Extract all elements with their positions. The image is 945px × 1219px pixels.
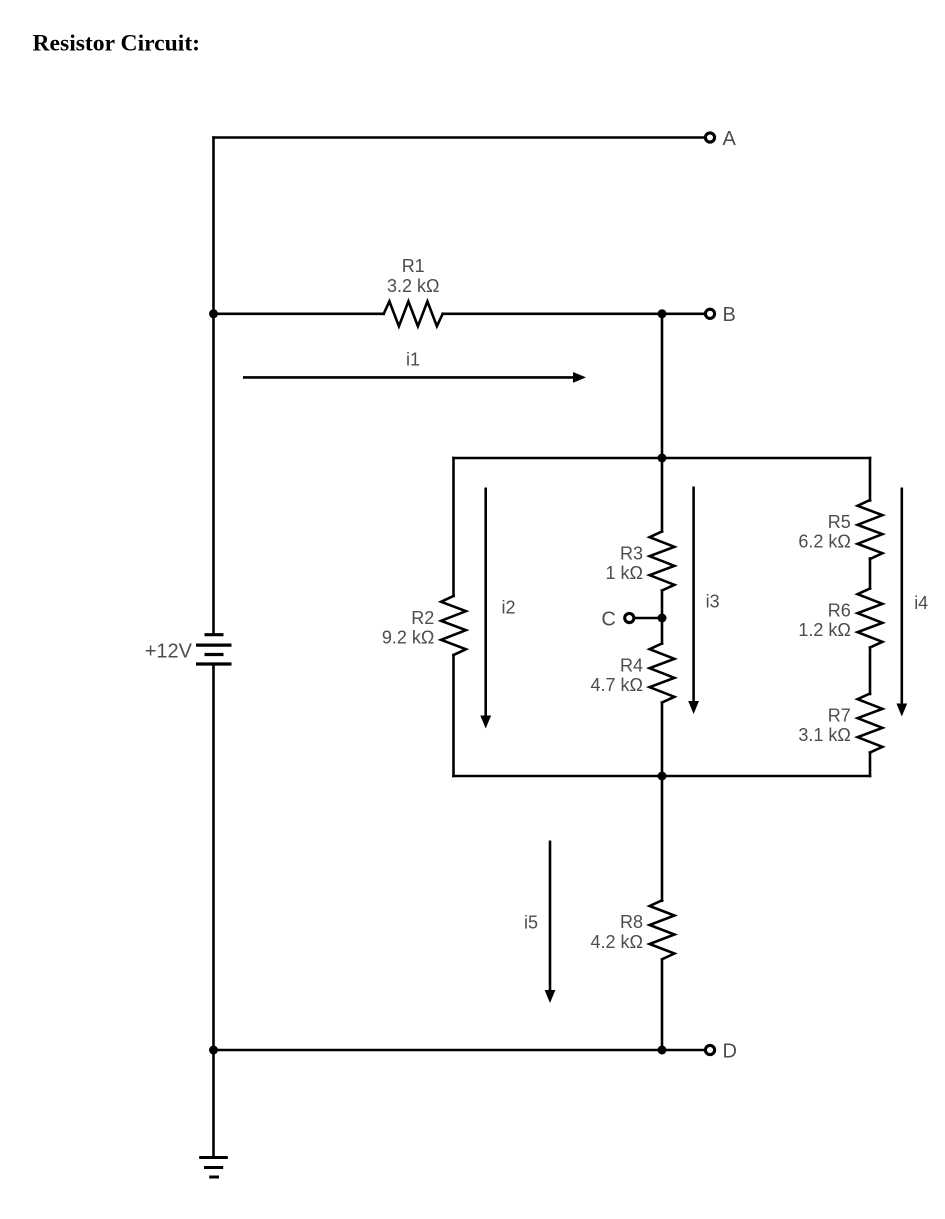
wire: R6 to R7 [869,648,872,695]
junction: middle branch at top rail [658,454,667,463]
resistor R8 [650,900,675,959]
node D junction [658,1046,667,1055]
ground [199,1158,228,1178]
wire: R1 right lead to node B junction [443,312,662,315]
junction: middle branch at bottom rail [658,772,667,781]
resistor R5 [858,500,883,559]
svg-text:Resistor Circuit:: Resistor Circuit: [33,31,201,57]
wire: node B junction stub to terminal B [662,312,704,315]
wire: network bottom rail [454,775,871,778]
svg-text:+12V: +12V [145,641,193,663]
svg-text:i5: i5 [524,913,538,933]
wire: R8 to node D [661,960,664,1050]
svg-text:i4: i4 [914,593,928,613]
wire: network top rail [454,457,871,460]
wire: R1 left lead from left rail [214,312,384,315]
svg-text:D: D [723,1040,737,1062]
wire: node D junction stub to terminal D [662,1049,704,1052]
node D terminal [705,1045,714,1054]
svg-text:i3: i3 [706,592,720,612]
node B junction (left rail / R1) [209,309,218,318]
node B terminal [705,309,714,318]
wire: R3 to node C [661,591,664,619]
node B junction [658,309,667,318]
svg-text:B: B [723,304,736,326]
resistor R1 [384,301,443,326]
current arrow i4 [896,488,907,717]
current arrow i2 [480,488,491,729]
wire: left rail lower segment (battery - to bottom rail) [212,664,215,1050]
wire: top rail from left rail to node A [214,136,705,139]
current arrow i3 [688,487,699,715]
resistor R3 [650,532,675,591]
wire: middle branch lower lead (R4 to bottom rail) [661,703,664,777]
wire: R5 to R6 [869,559,872,589]
resistor R6 [858,589,883,648]
resistor R2 [441,596,466,655]
wire: left branch upper lead (to R2) [452,458,455,596]
wire: middle branch upper lead (to R3) [661,458,664,532]
wire: bottom rail from left rail to node D junction [214,1049,663,1052]
current arrow i5 [545,841,556,1004]
wire: right branch lower lead (R7 to bottom rail) [869,753,872,777]
battery V1 +12V (plates) [196,635,232,664]
node D junction (left rail) [209,1046,218,1055]
svg-text:i2: i2 [501,598,515,618]
wire: left rail upper segment (top rail to battery +) [212,138,215,635]
resistor R4 [650,644,675,703]
wire: node B down to parallel-network top rail [661,314,664,458]
wire: network bottom to R8 [661,776,664,901]
resistor R7 [858,694,883,753]
node C terminal [625,613,634,622]
svg-text:C: C [601,608,615,630]
wire: node C to R4 [661,618,664,644]
svg-text:i1: i1 [406,349,420,369]
node C junction [658,614,667,623]
wire: left branch lower lead (R2 to bottom rail) [452,655,455,776]
wire: right branch upper lead (to R5) [869,458,872,501]
svg-text:A: A [723,128,737,150]
wire: left rail to ground [212,1050,215,1158]
wire: node C stub to terminal C [635,617,662,620]
node A terminal [705,133,714,142]
current arrow i1 [243,372,586,383]
